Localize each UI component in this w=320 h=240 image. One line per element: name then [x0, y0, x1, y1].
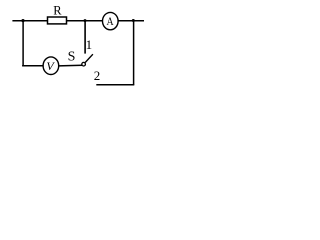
svg-text:2: 2 — [94, 68, 101, 83]
switch S blade — [85, 54, 93, 62]
node left junction — [21, 19, 24, 22]
wire left vertical — [22, 21, 24, 66]
svg-text:1: 1 — [86, 37, 93, 52]
wire voltmeter to switch pivot — [59, 64, 83, 67]
svg-text:R: R — [53, 4, 62, 18]
ammeter A body — [103, 12, 119, 29]
wire right vertical — [133, 21, 135, 85]
resistor R body — [48, 17, 67, 24]
wire switch terminal 1 post — [84, 21, 86, 54]
switch S pivot — [82, 62, 86, 66]
svg-text:A: A — [106, 15, 113, 28]
voltmeter V body — [43, 57, 59, 75]
node right junction — [132, 19, 135, 22]
node switch T junction — [84, 19, 87, 22]
wire bottom right — [96, 84, 134, 86]
wire top rail — [12, 20, 144, 22]
svg-text:S: S — [68, 50, 76, 65]
wire bottom-left to voltmeter — [22, 65, 43, 67]
